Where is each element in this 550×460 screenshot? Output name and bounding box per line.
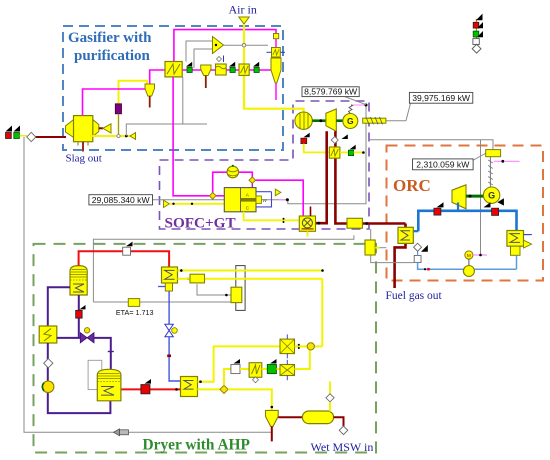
- node white square air row: [231, 365, 240, 374]
- wire yellow syngas riser: [119, 81, 148, 135]
- node diamond below HX7: [253, 377, 259, 383]
- AHP absorber vessel: [97, 369, 121, 401]
- heat exchanger HX4 anode preheat: [329, 147, 340, 158]
- legend arrow mid1: [477, 22, 483, 28]
- wire magenta square to HX3: [275, 39, 277, 48]
- glyph blue tick right of condenser: [524, 234, 532, 236]
- node dot right end line1: [321, 269, 324, 272]
- svg-text:29,085.340 kW: 29,085.340 kW: [92, 195, 151, 205]
- wire magenta mixer to stack inlet: [216, 195, 224, 197]
- svg-text:2,310.059 kW: 2,310.059 kW: [416, 159, 470, 169]
- wire maroon cone K2 drain: [205, 76, 207, 89]
- wire purple generator left loop: [48, 287, 70, 326]
- wire pink segment on power line: [279, 199, 285, 201]
- label box 8,579.769 kW: [302, 87, 366, 105]
- stream Air in inlet triangle: [239, 17, 249, 24]
- node green square S2: [230, 67, 235, 72]
- svg-text:Gasifier with: Gasifier with: [68, 30, 152, 46]
- node white diamond below evaporator: [414, 243, 422, 251]
- wire magenta motor line: [473, 254, 487, 256]
- arrow above red square 2: [484, 202, 491, 207]
- wire magenta gasifier top feed: [83, 89, 146, 116]
- wire gray fan yellow box drop: [197, 284, 231, 295]
- glyph blue tick left of HX5 stub: [158, 286, 165, 288]
- wire gray legend signal line: [24, 137, 272, 432]
- gray box left of absorber: [88, 360, 102, 389]
- arrow above compressor drain: [304, 133, 310, 138]
- GT turbine T1: [326, 109, 336, 131]
- wire gray ORC work line: [369, 140, 493, 150]
- wire purple generator bottom drop: [78, 295, 80, 338]
- svg-text:Fuel gas out: Fuel gas out: [386, 290, 443, 302]
- wire blue diamond-square connectors: [417, 251, 419, 255]
- heat exchanger HX7 air heater: [249, 363, 262, 378]
- wire maroon turbine inlet downcomer: [316, 131, 327, 223]
- svg-text:Slag out: Slag out: [66, 153, 102, 165]
- ETA signal box: [128, 299, 139, 307]
- node dot on return line: [424, 268, 426, 270]
- hatched shaft ORC turbine: [488, 157, 493, 187]
- heat exchanger HX1: [165, 62, 182, 77]
- svg-text:ETA= 1.713: ETA= 1.713: [116, 308, 154, 317]
- wire purple HX8 right to valve: [57, 337, 81, 339]
- wire yellow drum vapor stub: [329, 382, 331, 394]
- node dot on magenta aux line: [501, 160, 504, 163]
- node white square on red line: [123, 247, 131, 255]
- arrow above S1: [186, 62, 192, 67]
- node dot left end line1: [180, 269, 183, 272]
- node junction circle on syngas line: [117, 134, 120, 137]
- wire yellow HX7 to green square: [262, 368, 268, 370]
- hierarchy box SOFC+GT: [160, 101, 370, 229]
- wire purple HX8 down through pump: [48, 343, 111, 413]
- label box 29,085.340 kW: [89, 195, 153, 205]
- wire blue turbine inlet stub: [457, 203, 459, 211]
- ORC pump circle: [463, 266, 474, 277]
- node dot on exhaust line: [365, 222, 368, 225]
- wire magenta cone K1 to HX1: [150, 70, 166, 84]
- node dot power line step: [286, 198, 289, 201]
- glyph cross on purple line: [108, 349, 114, 355]
- wire indigo cathode out elbow: [256, 192, 272, 207]
- node dot on gray drop: [225, 294, 228, 297]
- wire blue valve to evaporator: [169, 337, 180, 381]
- sensor purple rectangle on riser: [115, 104, 121, 114]
- wire gray dryer exhaust link: [370, 229, 372, 240]
- wire yellow diamond to drum top: [329, 402, 331, 412]
- wire gray elbow from syngas dot to SOFC: [126, 124, 207, 136]
- dryer feed yellow box: [190, 274, 205, 283]
- arrow above S2: [229, 62, 235, 67]
- hierarchy box Gasifier with purification: [63, 26, 283, 150]
- node dot at work junction: [365, 104, 368, 107]
- legend black triangle left 2: [14, 126, 21, 132]
- arrow above air row green square: [270, 359, 277, 364]
- heat exchanger HX3 small: [267, 48, 286, 58]
- cyclone B4: [271, 58, 281, 83]
- shaft ORC turbine-generator: [466, 195, 483, 198]
- node mixer diamond D1: [27, 132, 36, 141]
- wire purple valve to absorber: [94, 338, 111, 369]
- leader 39975 label: [406, 103, 411, 121]
- heat exchanger HX2 air preheater: [239, 64, 249, 75]
- node red square on vapor line 1: [434, 208, 441, 215]
- wire maroon MSW feed to gasifier: [36, 136, 66, 138]
- wire maroon cyclone to drum: [278, 416, 302, 418]
- arrow above S4: [350, 145, 356, 150]
- node dot on evap outlet: [199, 380, 202, 383]
- condenser bottom sub-box: [511, 246, 521, 255]
- wire blue evaporator top connect: [413, 230, 418, 232]
- wire magenta HX1 to anode mixer: [173, 77, 209, 196]
- node green square air row: [267, 365, 276, 374]
- wire yellow fan1 to circle: [295, 345, 308, 347]
- node dot on shaft: [320, 119, 323, 122]
- node green square S3: [254, 67, 259, 72]
- wire yellow white square to HX7: [240, 368, 249, 370]
- wire maroon drum to inlet diamond: [334, 417, 344, 426]
- wire maroon combustor vent stub: [310, 207, 312, 217]
- node mixer diamond dryer air: [220, 385, 228, 393]
- node red square on vapor line 2: [492, 208, 499, 215]
- wire maroon evaporator pass and fuel gas out: [395, 224, 406, 289]
- stream Wet MSW inlet diamond: [339, 426, 348, 435]
- wire magenta cathode line to combustor: [256, 180, 304, 216]
- wire magenta ORC aux line: [494, 160, 520, 162]
- stream fuel inlet triangle SOFC: [164, 200, 170, 207]
- wire gray exhaust stub right: [379, 247, 386, 249]
- legend black triangle top: [476, 14, 483, 21]
- AHP evaporator HX6: [181, 377, 198, 397]
- node MSW feed green square: [14, 133, 20, 139]
- air nozzle triangle at gasifier: [103, 124, 111, 133]
- gas cooler yellow box on exhaust: [347, 218, 362, 228]
- wire yellow S4 to dot: [354, 151, 363, 153]
- label box 39,975.169 kW: [409, 92, 472, 103]
- wire gray motor signal vertical: [480, 140, 482, 255]
- svg-text:8,579.769 kW: 8,579.769 kW: [304, 87, 358, 97]
- combustor B5: [299, 216, 315, 231]
- node mixer diamond anode: [209, 192, 216, 199]
- svg-text:M: M: [467, 253, 471, 259]
- ORC condenser HX: [507, 231, 524, 247]
- svg-text:C: C: [246, 206, 250, 212]
- svg-text:39,975.169 kW: 39,975.169 kW: [412, 93, 471, 103]
- node white diamond above HX4: [331, 137, 338, 144]
- wire yellow evaporator outlet top: [198, 346, 323, 381]
- solution pump circle: [42, 381, 54, 393]
- wire lightblue condensate return: [418, 262, 517, 269]
- wire gray shaft work line: [386, 120, 406, 122]
- wire gray exhaust box to ORC square: [371, 255, 415, 263]
- wire gray fan outlet: [224, 44, 269, 46]
- wire yellow green square to fan2: [276, 368, 280, 370]
- dryer column yellow box: [231, 287, 242, 302]
- squiggle above generator: [349, 105, 353, 114]
- wire maroon cyclone drain: [271, 426, 273, 441]
- ORC turbine T2: [452, 185, 466, 209]
- wire yellow fan2 to riser: [295, 350, 310, 369]
- glyph red tick on return line: [427, 268, 429, 271]
- wire magenta blower to diamond2: [239, 172, 253, 177]
- GT compressor C1: [295, 112, 312, 129]
- node yellow square top right: [274, 34, 279, 39]
- node dots right of HX5: [180, 269, 182, 271]
- arrow above white square: [126, 242, 133, 247]
- node green square S4: [348, 150, 353, 155]
- gasifier B1 vessel: [66, 116, 99, 146]
- dryer exhaust yellow box: [365, 240, 379, 255]
- wire yellow diamond to cyclone: [228, 389, 272, 410]
- arrow right of ORC generator: [497, 198, 504, 205]
- wire magenta purification train: [182, 69, 272, 71]
- svg-text:Dryer with AHP: Dryer with AHP: [143, 437, 250, 454]
- svg-text:Air in: Air in: [229, 3, 257, 17]
- wire yellow air return riser: [321, 279, 323, 347]
- shaft compressor-turbine: [312, 119, 326, 122]
- scrubber B3: [216, 64, 227, 75]
- wire yellow air feed line: [244, 24, 304, 113]
- legend arrow mid2: [477, 31, 483, 37]
- node splitter diamond2: [249, 177, 256, 184]
- wire gray elbow lower to fan: [194, 49, 213, 68]
- ORC turbine inlet box: [486, 150, 501, 157]
- node crossing circle on fan outlet: [242, 44, 245, 47]
- hierarchy box ORC: [387, 146, 544, 281]
- wire yellow air row upper line1: [178, 270, 323, 272]
- wire magenta recycle top line: [174, 30, 276, 62]
- shaft turbine-generator: [336, 119, 343, 122]
- MSW drum oval: [302, 411, 333, 424]
- wire gray below purple sensor: [118, 114, 120, 135]
- dryer fan 2: [280, 360, 295, 380]
- condenser air cone: [524, 240, 532, 248]
- ORC generator G: [483, 187, 499, 203]
- wire red absorber to evaporator: [121, 388, 181, 390]
- node dot on ORC shaft: [469, 195, 472, 198]
- arrow above S3: [253, 62, 259, 67]
- gray arrow on legend line: [114, 429, 129, 436]
- wire yellow legend connector: [19, 135, 27, 137]
- solution HX8: [39, 326, 57, 343]
- wire maroon cone K1 drain: [149, 96, 151, 108]
- arrow right of evap diamond: [421, 245, 428, 252]
- wire blue condenser to expansion valve: [168, 291, 170, 324]
- node MSW feed red square: [6, 133, 12, 139]
- wire yellow stack bottom to combustor: [244, 212, 300, 221]
- shaft coupling cylinder: [363, 117, 386, 124]
- GT generator G: [343, 114, 358, 129]
- node dot end of bleed line: [362, 151, 365, 154]
- wire gray HX1 to work line: [182, 77, 184, 124]
- wire red generator to condenser: [79, 251, 170, 267]
- svg-text:purification: purification: [74, 48, 150, 64]
- stack power tap appendage: [256, 196, 261, 203]
- node red square on generator drop: [76, 310, 82, 318]
- expansion valve blue vertical bowtie: [165, 324, 177, 336]
- label box 2,310.059 kW: [413, 153, 488, 170]
- wire yellow HX4 to green sq: [340, 151, 349, 153]
- recycle blower circle: [227, 165, 239, 178]
- glyph valve dots fan1 outlet: [298, 344, 300, 346]
- ORC evaporator HX: [398, 227, 413, 243]
- node tick on blue line: [167, 355, 171, 358]
- glyph blue tick above scrubber: [223, 56, 225, 63]
- wire blue ORC vapor header: [418, 211, 516, 231]
- dryer column tall rect: [236, 266, 245, 311]
- stream triangle right of stack: [275, 189, 281, 196]
- legend red square: [473, 22, 479, 28]
- node green square S1: [187, 67, 192, 72]
- wire lightblue condenser outlet: [516, 255, 518, 269]
- AHP condenser HX5: [162, 267, 178, 291]
- arrow above dryer red square: [145, 379, 152, 384]
- arrow above air row white square: [234, 359, 241, 364]
- glyph valve dots on combustor feed: [283, 218, 285, 220]
- wire maroon exhaust to ORC evaporator: [362, 222, 405, 225]
- node dot before cyclone: [271, 406, 274, 409]
- legend green square: [473, 31, 479, 37]
- cone separator K2: [201, 65, 211, 76]
- legend white diamond: [472, 44, 481, 53]
- hierarchy box Dryer with AHP: [34, 244, 377, 453]
- wire magenta cyclone dipleg: [275, 83, 277, 100]
- fan blower triangle B2: [213, 37, 224, 54]
- wire gray dryer control box outline: [93, 235, 354, 302]
- node dot fuel line 2: [191, 203, 193, 205]
- wire yellow combustor bottom stub: [307, 231, 309, 236]
- dryer cyclone: [266, 410, 279, 426]
- wire magenta anode mixer riser to blower: [213, 172, 227, 193]
- wire maroon gasifier right nozzle: [99, 127, 103, 129]
- wire maroon slag drain: [82, 142, 84, 152]
- wire yellow compressor bleed to HX4: [304, 144, 330, 153]
- node white diamond on purple line: [44, 359, 53, 368]
- svg-text:SOFC+GT: SOFC+GT: [165, 215, 236, 232]
- vent triangle right of gasifier: [130, 133, 136, 140]
- node diamond above drum: [326, 394, 334, 402]
- wire magenta diamond2 to stack top: [251, 184, 253, 188]
- svg-text:ORC: ORC: [393, 176, 431, 195]
- svg-text:G: G: [488, 190, 495, 200]
- node dot fuel line 1: [172, 203, 174, 205]
- SOFC stack U1: [224, 188, 256, 212]
- wire yellow syngas outlet horizontal: [90, 135, 131, 137]
- wire yellow air row lower line2: [178, 278, 323, 280]
- arrow above generator red square: [80, 305, 86, 309]
- wire yellow diamond riser to air row: [224, 369, 231, 385]
- node dot motor line: [479, 254, 482, 257]
- legend connector line: [475, 19, 477, 45]
- node dot on syngas line: [125, 135, 128, 138]
- wire maroon turbine exhaust downcomer: [335, 131, 347, 223]
- svg-text:G: G: [347, 116, 354, 126]
- arrow right of diamond HX4: [342, 134, 348, 139]
- wire yellow evaporator outlet bottom: [198, 388, 221, 390]
- wire yellow fuel line to stack: [170, 203, 225, 205]
- ORC pump motor M: [465, 251, 473, 266]
- node white square below evaporator: [414, 256, 421, 263]
- svg-text:Wet MSW in: Wet MSW in: [311, 440, 374, 454]
- glyph diamond above scrubber: [217, 57, 222, 62]
- wire gray elbow upper to fan: [186, 41, 213, 62]
- wire pink generator work line: [351, 104, 366, 106]
- node circle on air line: [307, 343, 314, 350]
- wire gray dryer control box bottom: [93, 301, 235, 303]
- solution valve bowtie: [80, 328, 94, 343]
- node red square below compressor: [301, 138, 307, 143]
- node dot on red line: [175, 388, 178, 391]
- dryer fan 1: [280, 334, 295, 358]
- wire indigo anode out line: [256, 191, 272, 193]
- node dot combustor outlet: [317, 222, 320, 225]
- legend white square: [473, 39, 479, 45]
- node red square on dryer red line: [141, 385, 150, 394]
- cone separator K1: [145, 84, 155, 96]
- AHP generator vessel: [70, 266, 87, 295]
- arrow above red square 1: [437, 202, 444, 207]
- legend black triangle left 1: [6, 126, 13, 132]
- wire gray SOFC power line: [153, 105, 367, 204]
